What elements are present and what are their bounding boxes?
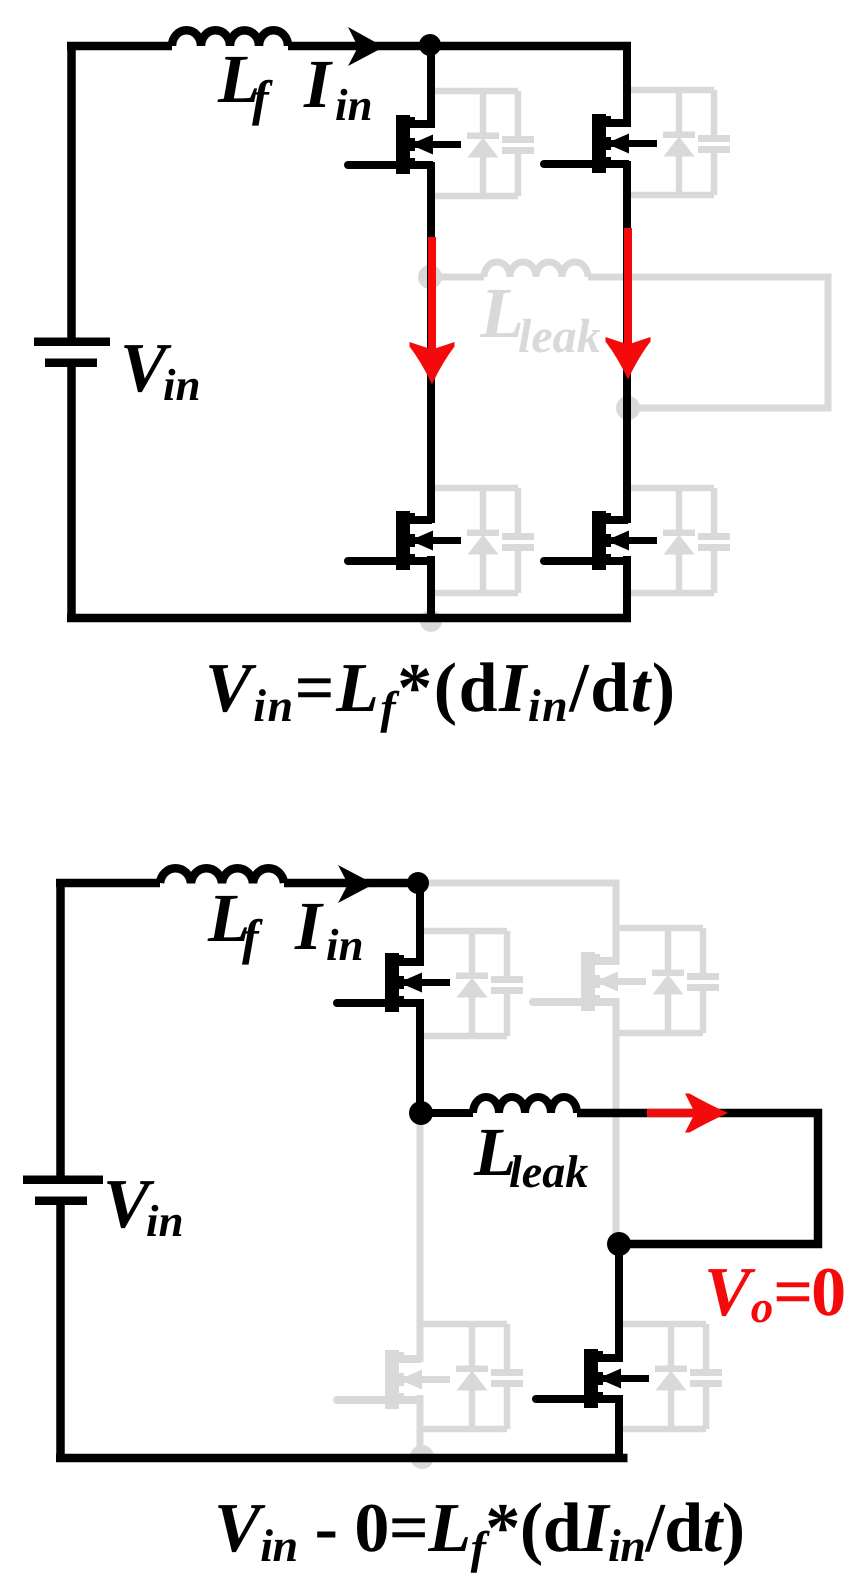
MOSFET S3 top-right (on) [544,114,657,173]
MOSFET S3 top-right (off, gray) [533,952,646,1011]
leakage inductor Lleak wire left stub [421,1109,473,1117]
MOSFET S4 bottom-right (on) [544,511,657,570]
wire Lleak right loop [588,277,828,408]
battery Vin plate long [34,338,110,347]
node dot gray on bottom wire [410,1445,434,1469]
MOSFET S2 bottom-left (off, gray) [337,1350,450,1409]
wire top from inductor to node [284,879,418,888]
filter inductor Lf [172,30,288,46]
snubber box (body diode + capacitor) of S3 top-right [629,90,730,195]
MOSFET S2 bottom-left (on) [348,511,461,570]
wire gray right leg segments [613,883,620,1244]
node dot Lleak right terminal [616,396,640,420]
svg-text:in: in [335,80,373,130]
wire Lleak to right loop [577,1113,818,1244]
wire left below battery and bottom wire [56,1205,628,1462]
wire top left from source to filter inductor [56,879,160,1176]
node dot Lleak left [409,1101,433,1125]
wire left leg upper (black) [416,883,424,1113]
svg-text:in: in [326,920,364,970]
node dot Lleak left terminal [418,265,442,289]
leakage inductor Lleak coils [484,262,588,277]
svg-text:Vin=Lf*(dIin/dt): Vin=Lf*(dIin/dt) [205,650,675,733]
snubber box of S3 top-right [618,928,719,1033]
svg-text:f: f [242,909,263,965]
svg-text:in: in [163,360,201,410]
node dot top junction [419,34,441,56]
filter inductor Lf [160,868,284,883]
wire right leg lower (black) [615,1244,623,1462]
node dot gray below bottom wire left leg [420,610,442,632]
svg-text:leak: leak [518,310,601,363]
svg-text:leak: leak [509,1146,588,1197]
snubber box (body diode + capacitor) of S4 bottom-right [629,488,730,593]
MOSFET S1 top-left (on) [348,115,461,174]
wire top left from source to filter inductor [67,42,172,338]
current arrow (red) left leg [428,237,436,352]
current arrow (red) right leg [624,228,632,347]
equation 2: Vin - 0=Lf*(dIin/dt) [214,1490,745,1573]
snubber box of S1 top-left [422,931,523,1036]
snubber box of S2 bottom-left [422,1324,523,1429]
svg-text:in: in [146,1196,184,1246]
node dot top junction [407,872,429,894]
svg-text:Vin - 0=Lf*(dIin/dt): Vin - 0=Lf*(dIin/dt) [214,1490,745,1573]
snubber box of S4 bottom-right [621,1324,722,1429]
wire top from inductor to right leg [288,42,631,51]
wire right bridge leg segments [623,46,631,618]
svg-text:I: I [303,46,333,122]
MOSFET S1 top-left (on) [337,953,450,1012]
equation 1: Vin=Lf*(dIin/dt) [205,650,675,733]
wire gray left leg lower segments [417,1113,424,1458]
svg-text:Vo=0: Vo=0 [704,1254,844,1332]
wire left below battery and bottom wire [67,366,631,622]
wire gray top extension to right leg [418,880,620,887]
leakage inductor Lleak coils [473,1097,577,1113]
svg-text:f: f [252,70,273,126]
wire left bridge leg segments [427,46,435,618]
node dot output junction [607,1232,631,1256]
svg-text:I: I [294,888,324,964]
battery Vin plate short [35,1197,87,1206]
leakage inductor Lleak (inactive, gray) wire left segment [430,274,484,281]
snubber box (body diode + capacitor) of S1 top-left [433,91,534,196]
current arrow Iin (black) on top wire [348,27,384,66]
MOSFET S4 bottom-right (on) [536,1349,649,1408]
current arrow Iin (black) on top wire [338,865,374,903]
battery Vin plate long [23,1176,103,1185]
current arrow (red) output [647,1109,697,1117]
snubber box (body diode + capacitor) of S2 bottom-left [433,488,534,593]
battery Vin plate short [45,359,97,368]
